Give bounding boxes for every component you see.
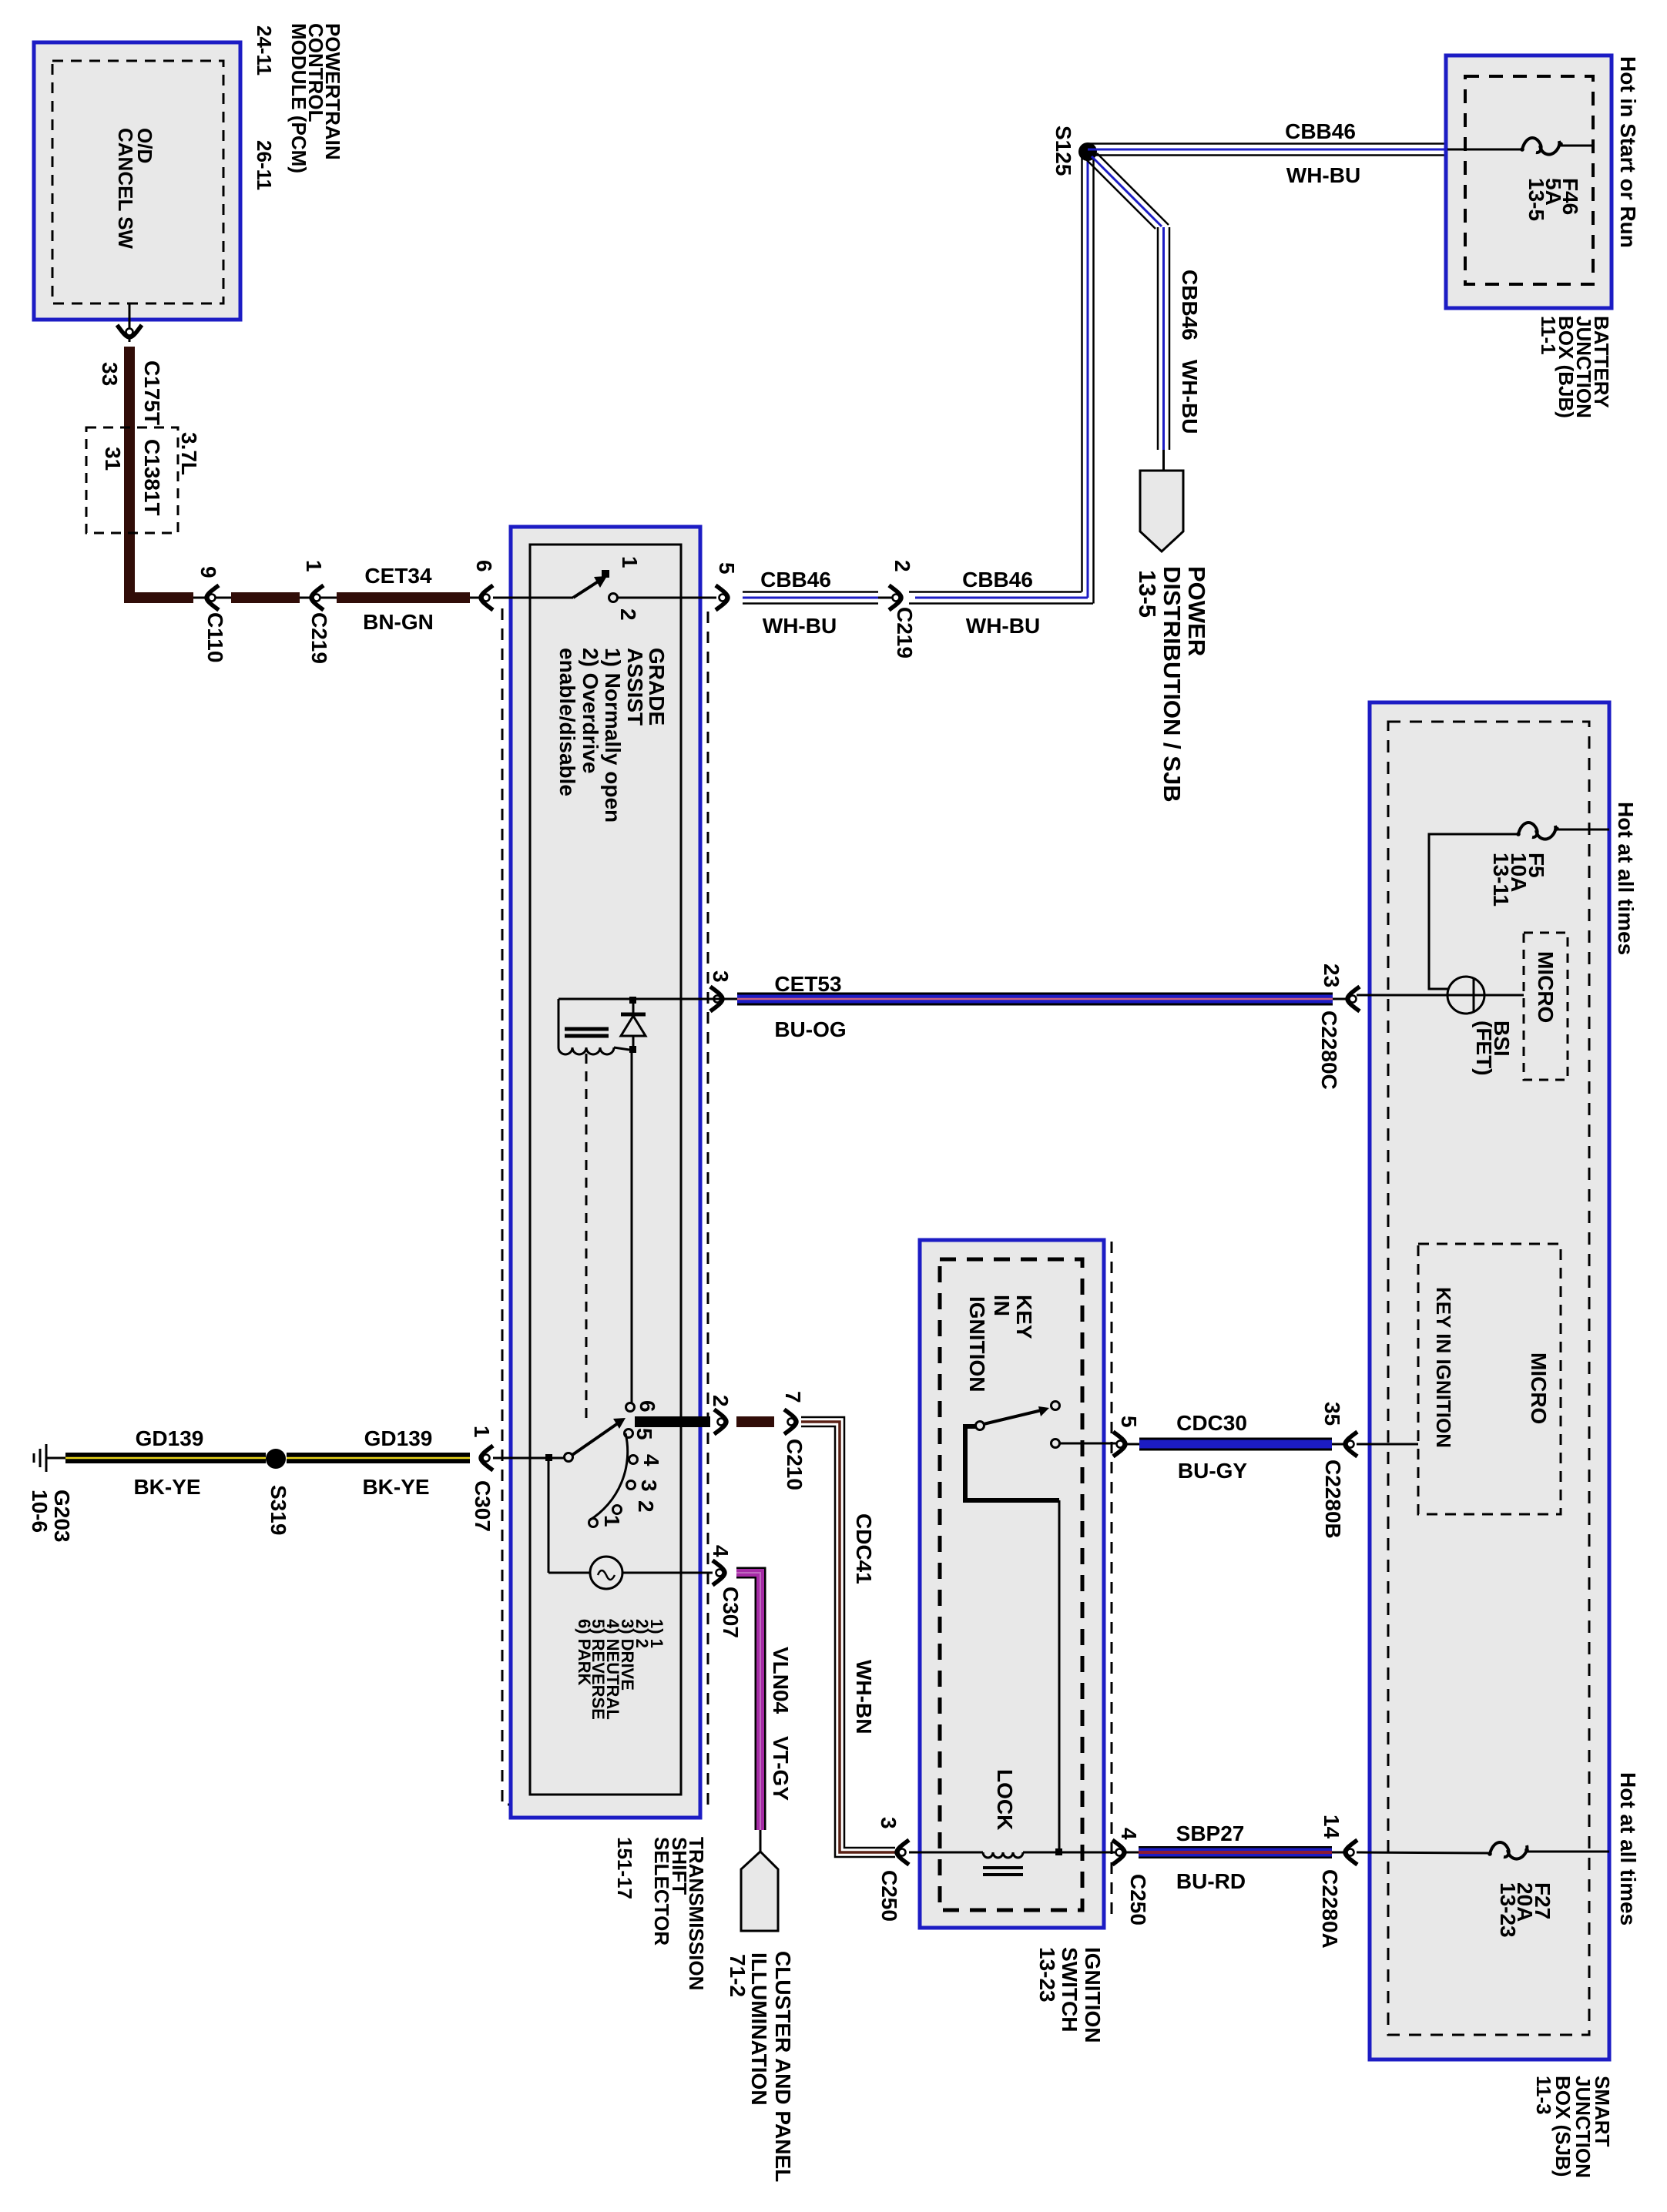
wire label CBB46 WH-BU (right): [962, 568, 1040, 638]
wire pivot to pin 1: [493, 1454, 565, 1461]
wire CDC41 WH-BN: [801, 1417, 895, 1857]
svg-text:33: 33: [98, 362, 122, 386]
wire VLN04 VT-GY: [736, 1573, 793, 1853]
connector C110 arrow pin 9: [196, 566, 227, 662]
wire CET34 vertical from pin33 (BN): [124, 347, 135, 598]
svg-text:C2280B: C2280B: [1321, 1460, 1345, 1539]
wire GD139 BK-YE right segment: [287, 1426, 470, 1499]
svg-text:CBB46: CBB46: [1178, 270, 1202, 340]
KEY IN IGNITION text: [965, 1295, 1036, 1392]
connector C219 arrow pin 1: [302, 560, 331, 664]
relay coil: [558, 1029, 629, 1054]
svg-text:3: 3: [709, 970, 733, 983]
svg-text:5: 5: [715, 562, 739, 575]
svg-text:WH-BU: WH-BU: [1286, 163, 1360, 187]
BSI (FET): [1447, 977, 1524, 1076]
MICRO box (key in ignition): [1418, 1244, 1561, 1514]
connector C2280C pin 23: [1317, 964, 1360, 1090]
connector C210 pin 7: [781, 1391, 807, 1490]
lamp branch: [548, 1458, 590, 1573]
svg-text:LOCK: LOCK: [993, 1769, 1017, 1830]
wire CET53 BU-OG: [709, 998, 1346, 1000]
grade assist switch pins 1-2: [493, 556, 716, 621]
selector name label: [613, 1837, 708, 1990]
MICRO box (BSI): [1524, 933, 1568, 1080]
svg-text:71-2: 71-2: [726, 1954, 750, 1997]
svg-text:ASSIST: ASSIST: [623, 648, 647, 726]
wire label CBB46 WH-BU (riser): [1178, 270, 1202, 434]
svg-text:13-11: 13-11: [1489, 853, 1513, 907]
wire label CET34 BN-GN: [363, 564, 434, 634]
pin 3 arrow: [709, 970, 733, 1011]
svg-text:10-6: 10-6: [28, 1490, 52, 1533]
F27 feed wire: [1527, 1851, 1609, 1853]
svg-text:23: 23: [1320, 964, 1343, 987]
PCM name label: [253, 23, 344, 190]
pin 6 arrow: [472, 560, 496, 610]
ignition switch box (blue): [920, 1240, 1104, 1928]
svg-text:KEY IN IGNITION: KEY IN IGNITION: [1432, 1287, 1455, 1448]
rotary switch blade: [565, 1418, 626, 1462]
svg-text:CLUSTER AND PANEL: CLUSTER AND PANEL: [771, 1951, 795, 2182]
wire label CDC41 WH-BN: [852, 1513, 876, 1734]
pin 33 lead from PCM: [117, 303, 142, 342]
svg-text:1: 1: [470, 1426, 494, 1438]
pin 5 arrow: [715, 562, 739, 610]
svg-text:C219: C219: [307, 612, 331, 664]
svg-text:MICRO: MICRO: [1534, 951, 1558, 1023]
svg-text:IGNITION: IGNITION: [965, 1296, 989, 1392]
splice S125: [1052, 126, 1097, 176]
svg-text:4: 4: [709, 1545, 733, 1557]
svg-text:WH-BN: WH-BN: [852, 1660, 876, 1734]
svg-text:31: 31: [101, 447, 125, 471]
ignition switch outer dashed line: [1111, 1242, 1113, 1919]
svg-text:GD139: GD139: [136, 1426, 204, 1450]
wire micro to pin 35: [1357, 1443, 1418, 1446]
svg-text:2: 2: [891, 560, 914, 572]
svg-text:1: 1: [600, 1515, 624, 1527]
svg-text:3.7L: 3.7L: [177, 432, 201, 475]
svg-text:SELECTOR: SELECTOR: [650, 1837, 673, 1946]
svg-text:DISTRIBUTION / SJB: DISTRIBUTION / SJB: [1159, 566, 1186, 803]
pin 5 arrow: [1113, 1416, 1141, 1456]
selector positions text: [575, 1619, 666, 1720]
LOCK coil wire: [909, 1769, 1116, 1875]
svg-text:Hot at all times: Hot at all times: [1614, 802, 1638, 955]
svg-text:13-23: 13-23: [1496, 1882, 1520, 1938]
svg-text:ILLUMINATION: ILLUMINATION: [747, 1952, 771, 2106]
ignition switch inner dashed box: [940, 1259, 1082, 1910]
svg-text:SWITCH: SWITCH: [1058, 1947, 1082, 2032]
svg-text:BK-YE: BK-YE: [362, 1475, 429, 1499]
svg-text:WH-BU: WH-BU: [966, 614, 1040, 638]
svg-text:GRADE: GRADE: [645, 648, 669, 726]
diode: [621, 999, 646, 1053]
shift selector inner component box: [530, 545, 681, 1795]
pin 1 arrow C307: [470, 1426, 495, 1532]
wire from relay to rotary contact 6: [631, 1050, 633, 1403]
svg-text:7: 7: [781, 1391, 805, 1403]
wire CBB46 branch to power distribution: [1085, 153, 1169, 472]
svg-text:C175T: C175T: [140, 360, 164, 425]
svg-text:BK-YE: BK-YE: [133, 1475, 200, 1499]
svg-text:C307: C307: [719, 1587, 743, 1638]
connector C1381T dashed box: [86, 427, 201, 533]
pin 4 arrow C307: [709, 1545, 743, 1638]
wire GD139 BK-YE left segment: [65, 1426, 266, 1499]
svg-text:C2280C: C2280C: [1317, 1010, 1341, 1090]
svg-text:C250: C250: [877, 1870, 901, 1922]
pin 4 arrow C250: [1112, 1828, 1150, 1925]
svg-text:G203: G203: [50, 1490, 74, 1543]
connector C219 arrow pin 2: [889, 560, 917, 659]
mechanical link dashed: [585, 1054, 588, 1423]
svg-text:MICRO: MICRO: [1527, 1352, 1551, 1424]
svg-text:C219: C219: [893, 607, 917, 659]
svg-text:6: 6: [636, 1400, 659, 1413]
wire pin 2 thick to C210: [635, 1395, 774, 1434]
wire CBB46 top run to BJB: [1088, 144, 1446, 156]
wire CDC30 BU-GY: [1127, 1411, 1346, 1483]
svg-text:1: 1: [618, 556, 642, 568]
wire contact to pin 5: [1060, 1443, 1116, 1445]
svg-text:Hot in Start or Run: Hot in Start or Run: [1616, 56, 1640, 248]
svg-text:11-3: 11-3: [1532, 2076, 1555, 2115]
svg-text:VT-GY: VT-GY: [769, 1736, 793, 1801]
svg-text:CDC30: CDC30: [1176, 1411, 1247, 1435]
ignition switch common path: [965, 1426, 1062, 1855]
svg-text:2: 2: [709, 1395, 733, 1407]
transmission shift selector dashed outline: [502, 608, 708, 1805]
svg-text:14: 14: [1320, 1815, 1343, 1839]
wire SBP27 BU-RD: [1126, 1822, 1346, 1893]
fuse F5 10A: [1489, 823, 1559, 907]
ignition switch contacts: [976, 1402, 1060, 1448]
svg-text:6: 6: [472, 560, 496, 572]
svg-text:SBP27: SBP27: [1176, 1822, 1245, 1845]
battery junction box BJB: [1446, 55, 1612, 308]
svg-text:(FET): (FET): [1472, 1021, 1496, 1076]
svg-text:2: 2: [616, 608, 640, 621]
svg-text:5: 5: [1117, 1416, 1141, 1428]
svg-text:S125: S125: [1052, 126, 1075, 176]
svg-text:POWER: POWER: [1183, 566, 1210, 656]
wire CBB46 vertical riser to S125: [1082, 152, 1094, 604]
wire lamp to pin 4: [622, 1572, 713, 1574]
connector C2280A pin 14: [1318, 1815, 1357, 1949]
svg-text:C2280A: C2280A: [1318, 1869, 1342, 1949]
svg-text:1: 1: [302, 560, 326, 572]
ground G203: [28, 1444, 74, 1543]
SJB name label: [1532, 2076, 1614, 2178]
connector C250 pin 3: [877, 1817, 909, 1922]
illumination lamp: [590, 1557, 622, 1589]
svg-text:13-5: 13-5: [1524, 178, 1548, 221]
svg-text:VLN04: VLN04: [769, 1647, 793, 1714]
svg-text:11-1: 11-1: [1537, 316, 1560, 355]
svg-text:C1381T: C1381T: [140, 439, 164, 516]
wire label CBB46 WH-BU (top): [1285, 119, 1360, 187]
svg-text:enable/disable: enable/disable: [555, 648, 579, 796]
svg-text:2: 2: [634, 1500, 658, 1513]
svg-text:IGNITION: IGNITION: [1081, 1947, 1105, 2043]
svg-text:C110: C110: [203, 612, 227, 662]
svg-text:GD139: GD139: [364, 1426, 433, 1450]
svg-text:CDC41: CDC41: [852, 1513, 876, 1584]
svg-text:C307: C307: [471, 1480, 495, 1532]
BJB name label: [1537, 316, 1613, 418]
svg-text:CET34: CET34: [364, 564, 432, 588]
rotary switch contacts 1-6: [589, 1400, 664, 1527]
wire BSI to pin 23: [1357, 994, 1447, 997]
svg-text:CBB46: CBB46: [962, 568, 1033, 592]
svg-text:KEY: KEY: [1012, 1295, 1036, 1339]
connector C2280B pin 35: [1320, 1402, 1357, 1539]
svg-text:C210: C210: [783, 1439, 807, 1490]
wire F27 to pin 14: [1357, 1852, 1490, 1853]
svg-text:6) PARK: 6) PARK: [575, 1619, 594, 1685]
PCM module box: POWERTRAIN CONTROL MODULE (PCM): [34, 42, 240, 320]
fuse F46 5A: [1520, 138, 1593, 221]
off-page connector CLUSTER AND PANEL ILLUMINATION: [726, 1852, 795, 2182]
svg-text:9: 9: [196, 566, 220, 578]
svg-text:MODULE (PCM): MODULE (PCM): [287, 23, 310, 173]
svg-text:13-5: 13-5: [1134, 570, 1161, 618]
splice S319: [266, 1449, 290, 1535]
svg-text:4: 4: [639, 1454, 663, 1466]
svg-text:CBB46: CBB46: [1285, 119, 1356, 143]
svg-text:3: 3: [637, 1480, 661, 1492]
grade assist text: [555, 648, 669, 823]
svg-text:BU-GY: BU-GY: [1178, 1459, 1248, 1483]
wire label CBB46 WH-BU (left): [760, 568, 837, 638]
svg-text:WH-BU: WH-BU: [763, 614, 837, 638]
relay coil circuit in shift selector: [558, 997, 709, 1047]
svg-text:CANCEL SW: CANCEL SW: [114, 128, 137, 249]
svg-text:BU-OG: BU-OG: [774, 1017, 846, 1041]
wire CBB46 segment C219 to S125 riser: [909, 592, 1093, 604]
transmission shift selector box (blue): [511, 527, 700, 1818]
svg-text:2) Overdrive: 2) Overdrive: [579, 648, 602, 773]
svg-text:1) Normally open: 1) Normally open: [601, 648, 625, 823]
svg-text:BN-GN: BN-GN: [363, 610, 434, 634]
svg-text:S319: S319: [267, 1485, 290, 1535]
svg-text:BU-RD: BU-RD: [1176, 1869, 1246, 1893]
svg-text:35: 35: [1320, 1402, 1344, 1426]
svg-text:4: 4: [1117, 1828, 1141, 1840]
svg-text:13-23: 13-23: [1035, 1947, 1059, 2003]
wire label CET53 BU-OG: [774, 972, 846, 1041]
svg-text:CBB46: CBB46: [760, 568, 831, 592]
svg-text:151-17: 151-17: [613, 1837, 636, 1899]
wire F5 to BSI: [1429, 834, 1518, 989]
off-page connector POWER DISTRIBUTION / SJB: [1134, 471, 1210, 803]
svg-text:3: 3: [877, 1817, 901, 1829]
svg-text:WH-BU: WH-BU: [1178, 360, 1202, 434]
svg-text:24-11: 24-11: [253, 25, 276, 75]
svg-text:26-11: 26-11: [253, 140, 276, 190]
svg-text:IN: IN: [990, 1295, 1014, 1316]
svg-text:CET53: CET53: [774, 972, 841, 996]
fuse F27 20A: [1488, 1842, 1555, 1938]
svg-text:5: 5: [632, 1428, 656, 1440]
F5 feed wire: [1558, 829, 1609, 831]
BJB feed wire: [1447, 149, 1522, 151]
smart junction box SJB: [1370, 702, 1609, 2060]
wire CET34 horizontal row to C110: [124, 597, 485, 599]
ignition switch name label: [1035, 1947, 1105, 2043]
svg-text:Hot at all times: Hot at all times: [1616, 1772, 1640, 1925]
svg-text:C250: C250: [1126, 1874, 1150, 1925]
wire CBB46 segment pin5 to C219: [743, 592, 895, 604]
